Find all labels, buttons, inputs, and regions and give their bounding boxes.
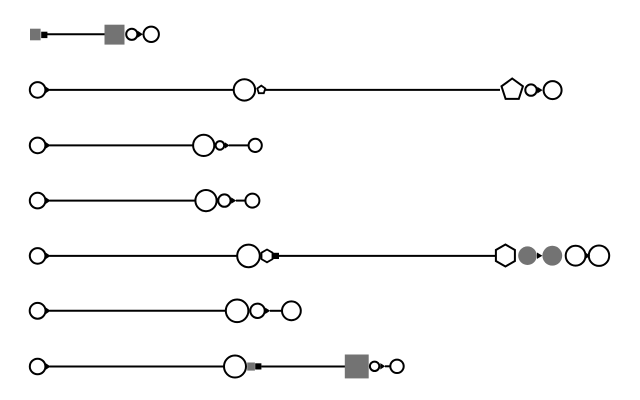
circle C5b (large open): [237, 245, 260, 268]
circle C3d (open, chain 3 end): [249, 139, 262, 152]
square S7b (large gray): [345, 355, 369, 379]
connector triangle chain 4 mid: [231, 197, 236, 203]
circle C6c (mid open): [250, 304, 264, 318]
circle C7b (large open): [224, 356, 246, 378]
wire row 1: [47, 33, 105, 35]
pentagon P2a (small): [257, 86, 265, 94]
connector triangle chain 5 left: [46, 253, 51, 260]
pentagon P2b (large): [502, 79, 523, 99]
connector triangle chain 6 mid: [265, 308, 270, 314]
wire row 2 left: [50, 89, 234, 91]
connector square (black) chain 1: [41, 32, 47, 38]
square S1a (gray, chain 1 start): [30, 29, 41, 41]
circle C6b (large open): [226, 300, 249, 323]
circle C2b (large open): [234, 79, 255, 100]
circle C3a (open, chain 3 start): [30, 138, 46, 154]
wire row 5 right: [279, 255, 495, 257]
wire row 5 left: [50, 255, 239, 257]
connector square (black) chain 7: [255, 363, 261, 369]
wire row 3 left: [50, 144, 195, 146]
circle C7c (small open): [370, 362, 379, 371]
circle C3c (small open): [216, 141, 225, 150]
circle C1b (open, chain 1 end): [144, 27, 159, 42]
connector triangle chain 5 right: [537, 253, 542, 259]
hexagon H5a (small, pointy-top): [262, 250, 273, 263]
circle C5d (gray filled): [542, 246, 562, 266]
circle C7d (open, chain 7 end): [390, 360, 403, 373]
connector triangle chain 1: [138, 31, 143, 38]
wire row 7 right: [385, 365, 391, 367]
connector triangle chain 6 left: [46, 307, 51, 314]
circle C5e (open): [566, 246, 586, 266]
wire row 7 left: [50, 366, 225, 368]
wire row 3 right: [229, 144, 250, 146]
square S7a (small gray): [247, 363, 255, 371]
connector square (black) chain 5: [273, 253, 279, 259]
connector triangle chain 2 right: [537, 87, 542, 94]
circle C2a (open, chain 2 start): [30, 82, 46, 98]
connector triangle chain 7 left: [46, 363, 51, 370]
circle C5f (open, chain 5 end): [589, 246, 609, 266]
circle C5a (open, chain 5 start): [30, 248, 46, 264]
connector triangle chain 5 end: [585, 252, 591, 260]
connector triangle chain 2 left: [46, 87, 51, 94]
circle C7a (open, chain 7 start): [30, 359, 46, 375]
wire row 4 left: [50, 200, 197, 202]
connector triangle chain 4 left: [46, 197, 51, 204]
circle C4a (open, chain 4 start): [30, 193, 46, 209]
circle C6a (open, chain 6 start): [30, 303, 46, 319]
wire row 4 right: [236, 200, 246, 202]
wire row 2 right: [265, 89, 500, 91]
circle C2d (open, chain 2 end): [544, 81, 562, 99]
circle C4b (large open): [195, 190, 216, 211]
connector triangle chain 3 mid: [225, 142, 230, 148]
circle C5c (gray filled): [518, 246, 537, 265]
square S1b (large gray): [105, 25, 125, 45]
hexagon H5b (large, pointy-top): [496, 245, 515, 267]
circle C1a (small open): [126, 29, 137, 40]
circle C4d (open, chain 4 end): [245, 194, 259, 208]
wire row 7 mid: [261, 366, 346, 368]
connector triangle chain 7 right: [380, 363, 385, 369]
wire row 6 right: [270, 310, 283, 312]
connector triangle chain 3 left: [46, 142, 51, 149]
circle C4c (mid open): [218, 194, 230, 206]
circle C3b (large open): [193, 135, 214, 156]
circle C2c (small open): [525, 84, 536, 95]
wire row 6 left: [50, 310, 227, 312]
circle C6d (open, chain 6 end): [282, 301, 301, 320]
